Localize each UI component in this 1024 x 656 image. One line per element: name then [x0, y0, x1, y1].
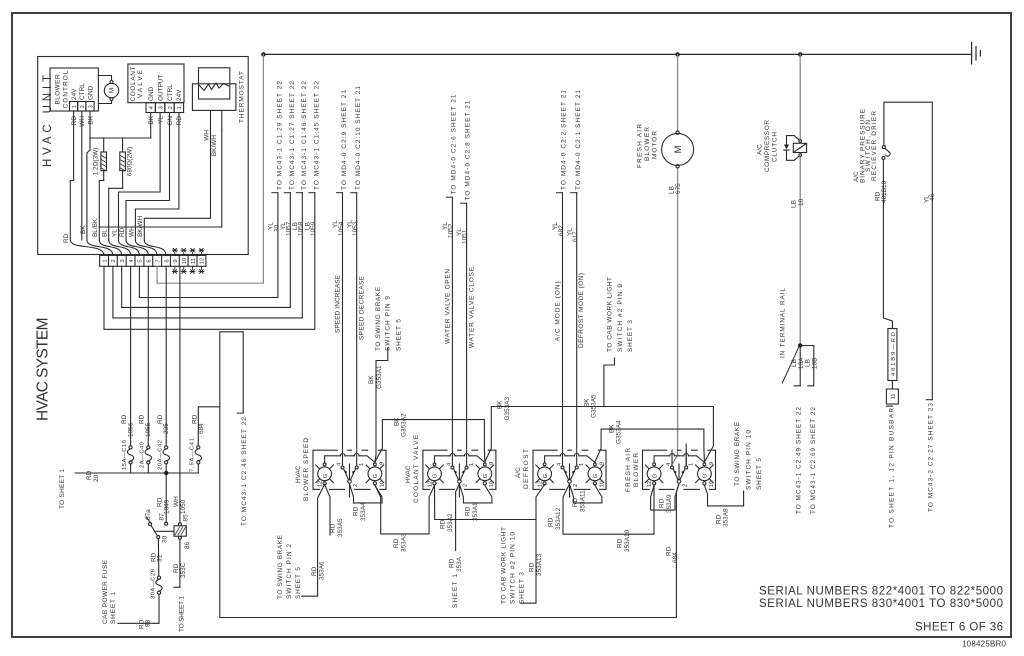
svg-text:SHEET 5: SHEET 5 — [756, 458, 763, 490]
svg-text:TO MC43-1 C2:46 SHEET 22: TO MC43-1 C2:46 SHEET 22 — [241, 417, 248, 526]
svg-text:11: 11 — [891, 393, 897, 399]
svg-text:WH: WH — [173, 496, 180, 507]
svg-text:CTRL: CTRL — [79, 83, 86, 100]
svg-text:GN: GN — [167, 116, 174, 126]
wire RD353A3 bus S1pin10 - S2pin12 — [375, 485, 435, 534]
svg-text:TO MD4-0 C2:6 SHEET 21: TO MD4-0 C2:6 SHEET 21 — [450, 94, 457, 194]
wire RD353A SHEET1 from S2 pin2 — [456, 484, 460, 551]
wire WH pin2 — [81, 111, 83, 240]
svg-text:617: 617 — [572, 231, 579, 242]
svg-text:RD: RD — [329, 523, 336, 533]
svg-text:2: 2 — [111, 259, 117, 262]
svg-text:353C: 353C — [180, 562, 187, 578]
wire RD353A13 to cab work light pin10 — [521, 484, 545, 603]
wire RD98 cab power fuse — [118, 594, 159, 623]
svg-text:86: 86 — [184, 541, 191, 549]
svg-text:RD: RD — [448, 558, 455, 568]
svg-text:MOTOR: MOTOR — [652, 131, 659, 159]
U-loop RD353A11 S3 pin2-pin10 — [570, 484, 602, 503]
wire BL/BK from r1 — [99, 181, 103, 241]
wire BL from r2 — [109, 188, 123, 240]
svg-text:TO MC43-1 C1:46 SHEET 22: TO MC43-1 C1:46 SHEET 22 — [301, 81, 308, 190]
svg-text:YL: YL — [157, 116, 164, 124]
wire t6 to fuse C40 — [147, 266, 149, 446]
svg-text:7.5A—C41: 7.5A—C41 — [190, 438, 196, 472]
svg-text:HVAC: HVAC — [405, 465, 412, 483]
svg-text:85: 85 — [183, 514, 190, 522]
svg-text:WH: WH — [128, 226, 135, 237]
svg-text:15A—C10: 15A—C10 — [122, 440, 128, 470]
svg-text:OUTPUT: OUTPUT — [157, 74, 164, 101]
svg-text:TO MC43-1 C1:45 SHEET 22: TO MC43-1 C1:45 SHEET 22 — [313, 81, 320, 190]
wire YL1053 to S1 pin1 — [356, 193, 358, 451]
node fuse bus — [164, 471, 168, 475]
svg-text:2A—C40: 2A—C40 — [140, 442, 146, 468]
svg-text:TO MC43-1 C2:49 SHEET 22: TO MC43-1 C2:49 SHEET 22 — [795, 407, 802, 514]
wire GN coolant pin2 — [126, 113, 170, 241]
svg-text:353A6: 353A6 — [319, 561, 326, 580]
svg-text:RD: RD — [658, 498, 665, 508]
label TO SWING BRAKE SWITCH PIN 2 SHEET 5 — [277, 534, 302, 599]
svg-text:1051: 1051 — [462, 229, 469, 244]
wire S1 pin2 shaft — [349, 484, 351, 497]
svg-text:353A9: 353A9 — [666, 494, 673, 513]
svg-text:LB: LB — [791, 200, 798, 208]
svg-text:RD: RD — [311, 566, 318, 576]
svg-text:M: M — [673, 145, 684, 153]
svg-text:1055: 1055 — [145, 422, 152, 437]
switch S2 HVAC COOLANT VALVE — [423, 450, 496, 489]
svg-text:CONTROL: CONTROL — [63, 70, 70, 108]
svg-text:BK: BK — [80, 225, 87, 234]
svg-text:TO SHEET 1: TO SHEET 1 — [59, 469, 66, 509]
svg-text:353A10: 353A10 — [624, 529, 631, 552]
wire RD1049 — [165, 473, 167, 522]
label TO SWING BRAKE SWITCH PIN 10 SHEET 5 — [734, 421, 763, 490]
svg-text:LB: LB — [805, 359, 812, 367]
svg-text:31: 31 — [157, 554, 164, 562]
svg-text:87a: 87a — [145, 509, 152, 520]
svg-text:A/C MODE (ON): A/C MODE (ON) — [555, 281, 562, 341]
svg-text:RD: RD — [548, 517, 555, 527]
svg-text:353A8: 353A8 — [723, 508, 730, 527]
svg-text:46: 46 — [929, 193, 936, 201]
wire BK G353A2 bus — [375, 420, 485, 462]
wire RD353A6 to swing brake pin2 — [302, 484, 325, 596]
svg-text:SERIAL NUMBERS 822*4001 TO 822: SERIAL NUMBERS 822*4001 TO 822*5000 — [759, 586, 1003, 598]
wire LB10A — [794, 346, 800, 386]
svg-text:1053: 1053 — [352, 221, 359, 236]
svg-text:353A4: 353A4 — [360, 502, 367, 521]
svg-text:BK: BK — [497, 400, 504, 409]
wire t2 stair to LB1058 — [113, 193, 302, 318]
svg-text:CTRL: CTRL — [167, 84, 174, 101]
ground — [972, 43, 981, 65]
svg-text:20A—C42: 20A—C42 — [158, 440, 164, 470]
svg-text:RD: RD — [121, 414, 128, 424]
svg-text:BK: BK — [368, 375, 375, 384]
svg-text:RECIEVER DRIER: RECIEVER DRIER — [871, 111, 878, 181]
svg-text:G353A1: G353A1 — [376, 365, 383, 389]
svg-text:BK: BK — [584, 398, 591, 407]
svg-text:SWITCH #2 PIN 10: SWITCH #2 PIN 10 — [510, 532, 517, 604]
wire t1 stair to LB1059 — [104, 193, 315, 330]
wire RD353A8 from S4 pin10 — [704, 485, 743, 506]
svg-text:235: 235 — [163, 423, 170, 434]
svg-text:CAB POWER FUSE: CAB POWER FUSE — [102, 559, 109, 624]
svg-text:BK/WH: BK/WH — [211, 135, 218, 156]
wire YL coolant pin3 — [119, 113, 161, 241]
svg-text:RD: RD — [528, 562, 535, 572]
fuse F3 20A-C42 — [163, 446, 169, 464]
A/C compressor clutch K2 — [799, 54, 801, 344]
fuse F6 481B9-RD busbar — [886, 329, 898, 407]
svg-text:BLOWER: BLOWER — [633, 453, 640, 487]
wire RD coolant pin1 — [135, 113, 179, 241]
wire WH1050 — [179, 267, 181, 523]
svg-text:RD: RD — [715, 514, 722, 524]
svg-text:680Ω(2W): 680Ω(2W) — [127, 147, 134, 177]
node terminal rail junction — [798, 343, 802, 347]
fresh air blower motor M2 — [672, 54, 678, 464]
svg-text:RD: RD — [157, 414, 164, 424]
wire BK/WH thermostat — [99, 130, 222, 227]
svg-text:1054: 1054 — [338, 221, 345, 236]
top label group: TO MC43-1 x4 — [276, 81, 320, 190]
wire t4 to fuse C10 — [130, 266, 132, 446]
top rail — [263, 53, 971, 55]
relay K1 — [149, 522, 187, 539]
svg-text:HVAC SYSTEM: HVAC SYSTEM — [35, 316, 52, 421]
wire LB10B — [800, 346, 814, 386]
coolant valve V1 — [128, 64, 184, 113]
switch S4 FRESH AIR BLOWER — [643, 450, 716, 489]
label CAB POWER FUSE SHEET 1 — [102, 559, 117, 624]
wire YL617 to S3 pin1 — [576, 193, 578, 451]
svg-text:BK: BK — [148, 115, 155, 124]
wire labels YL30 YL1057 LB1058 LB1059 — [268, 221, 318, 236]
svg-text:TO MC43-2 C2:27 SHEET 23: TO MC43-2 C2:27 SHEET 23 — [927, 403, 934, 512]
svg-text:DEFROST: DEFROST — [523, 449, 530, 489]
wire RD353C to sheet 1 — [174, 539, 180, 587]
svg-text:DEFROST MODE (ON): DEFROST MODE (ON) — [578, 273, 585, 348]
svg-text:BK/WH: BK/WH — [137, 216, 144, 237]
svg-text:RD: RD — [616, 538, 623, 548]
svg-text:FRESH AIR: FRESH AIR — [625, 448, 632, 492]
svg-text:1056: 1056 — [127, 422, 134, 437]
U-loop RD353A1 S2 pin2-pin10 — [459, 484, 492, 503]
svg-text:684: 684 — [672, 552, 679, 563]
svg-text:RD: RD — [139, 414, 146, 424]
svg-text:BK: BK — [87, 115, 94, 124]
svg-text:10: 10 — [798, 198, 805, 206]
svg-text:BK: BK — [609, 424, 616, 433]
wire t8 to fuse C42 — [165, 266, 167, 446]
svg-text:353A1: 353A1 — [472, 502, 479, 521]
svg-text:11: 11 — [191, 258, 197, 264]
svg-text:RD: RD — [440, 519, 447, 529]
wire RD353A10 bus S3pin2 - S4pin12 — [563, 484, 654, 534]
svg-text:TO MC43-1 C1:27 SHEET 22: TO MC43-1 C1:27 SHEET 22 — [289, 81, 296, 190]
wire RD31 — [157, 539, 159, 577]
node clutch tap — [798, 52, 802, 56]
svg-text:CLUTCH: CLUTCH — [771, 132, 778, 162]
svg-text:GND: GND — [87, 85, 94, 100]
wire YL1054 to S1 pin4 — [342, 193, 344, 451]
wire RD684 to fuse C41 — [198, 407, 220, 446]
svg-text:G353A3: G353A3 — [504, 396, 511, 420]
svg-text:6: 6 — [147, 259, 153, 262]
svg-text:WH: WH — [204, 130, 211, 141]
svg-text:WATER VALVE OPEN: WATER VALVE OPEN — [444, 269, 451, 344]
resistor R1 1.2ohm — [101, 138, 107, 181]
svg-text:BLOWER SPEED: BLOWER SPEED — [303, 438, 310, 501]
svg-text:1059: 1059 — [310, 221, 317, 236]
svg-text:RD: RD — [572, 497, 579, 507]
svg-text:G353A4: G353A4 — [616, 420, 623, 444]
svg-text:LB: LB — [791, 359, 798, 367]
wire RD353A2 bus S2pin12 - RD353A13 — [435, 485, 537, 519]
label TO MC43-1 C2:46 SHEET 22 — [237, 412, 243, 414]
svg-text:RD: RD — [191, 414, 198, 424]
svg-text:8: 8 — [164, 259, 170, 262]
label 87a pointer — [146, 517, 151, 523]
svg-text:SWITCH #2 PIN 9: SWITCH #2 PIN 9 — [617, 284, 624, 352]
svg-text:SPEED INCREASE: SPEED INCREASE — [334, 274, 341, 333]
svg-text:3: 3 — [88, 105, 94, 108]
svg-text:RD: RD — [173, 563, 180, 573]
svg-text:30: 30 — [162, 535, 169, 543]
svg-text:RD: RD — [464, 506, 471, 516]
U-loop RD353A9 S4 pin12-pin2 — [651, 484, 679, 510]
wire BK G353A5 cab work light pin9 — [604, 358, 615, 407]
fuse F5 30A-C26 — [156, 576, 162, 594]
svg-text:BLOWER: BLOWER — [644, 127, 651, 161]
connector S-curves into terminal strip — [70, 240, 166, 255]
svg-text:684: 684 — [198, 423, 205, 434]
svg-text:HVAC: HVAC — [295, 465, 302, 483]
svg-text:TO MD4-0 C2:10 SHEET 21: TO MD4-0 C2:10 SHEET 21 — [355, 86, 362, 190]
svg-text:481B10: 481B10 — [881, 180, 888, 203]
svg-text:WH: WH — [79, 116, 86, 127]
svg-text:7: 7 — [155, 259, 161, 262]
svg-text:RD: RD — [63, 233, 70, 243]
svg-text:20: 20 — [93, 474, 100, 482]
wire BK bundle — [87, 138, 90, 240]
svg-text:IN TERMINAL RAIL: IN TERMINAL RAIL — [779, 288, 786, 358]
svg-text:12: 12 — [200, 258, 206, 264]
svg-text:SHEET 3: SHEET 3 — [519, 572, 526, 604]
svg-text:24V: 24V — [71, 88, 78, 100]
svg-text:RD: RD — [86, 470, 93, 480]
svg-text:THERMOSTAT: THERMOSTAT — [239, 71, 246, 123]
svg-text:SWITCH PIN 10: SWITCH PIN 10 — [746, 430, 753, 490]
svg-text:2: 2 — [80, 105, 86, 108]
wire S4 pin1 stub — [685, 444, 687, 466]
node rail start — [261, 52, 265, 56]
svg-text:108425BR0: 108425BR0 — [962, 640, 1007, 649]
svg-text:SHEET 5: SHEET 5 — [295, 567, 302, 599]
svg-text:G353A5: G353A5 — [591, 394, 598, 418]
svg-text:RD: RD — [393, 538, 400, 548]
svg-text:353A3: 353A3 — [401, 533, 408, 552]
svg-text:1: 1 — [72, 105, 78, 108]
fuse bus — [75, 472, 198, 474]
wire BK G353A1 swing brake pin9 — [375, 348, 388, 462]
label TO CAB WORK LIGHT SWITCH #2 PIN 10 SHEET 3 — [501, 527, 526, 604]
svg-text:SHEET 1: SHEET 1 — [110, 592, 117, 624]
svg-text:SHEET 6 OF 36: SHEET 6 OF 36 — [915, 622, 1003, 634]
wire t3 stair to YL1057 — [122, 193, 291, 308]
svg-text:1049: 1049 — [163, 499, 170, 514]
svg-text:A/C: A/C — [756, 144, 763, 155]
svg-text:SHEET 5: SHEET 5 — [396, 319, 403, 351]
svg-text:WATER VALVE CLOSE: WATER VALVE CLOSE — [469, 266, 476, 348]
svg-text:1052: 1052 — [447, 223, 454, 238]
svg-text:COOLANT: COOLANT — [130, 66, 137, 101]
svg-text:1: 1 — [177, 106, 183, 109]
svg-text:24V: 24V — [176, 89, 183, 101]
svg-text:353A12: 353A12 — [555, 507, 562, 530]
svg-text:TO MD4-0 C2:9 SHEET 21: TO MD4-0 C2:9 SHEET 21 — [341, 90, 348, 190]
svg-text:SPEED DECREASE: SPEED DECREASE — [359, 275, 366, 340]
wire WH thermostat — [144, 115, 210, 240]
resistor R2 680ohm — [120, 138, 126, 188]
A/C binary pressure switch S5 — [882, 102, 932, 400]
fuse F2 2A-C40 — [145, 446, 151, 464]
svg-text:10B: 10B — [812, 358, 819, 369]
svg-text:98: 98 — [145, 619, 152, 627]
wire RD pin1 — [70, 111, 73, 240]
svg-text:353A13: 353A13 — [536, 553, 543, 576]
node motor tap — [675, 52, 679, 56]
svg-text:5: 5 — [138, 259, 144, 262]
HVAC UNIT box — [38, 57, 249, 255]
fuse F4 7.5A-C41 — [195, 446, 201, 464]
blower motor M1 — [98, 76, 118, 104]
wire t5 stair to YL30 — [139, 193, 278, 298]
wire YL1052 to S2 pin4 — [451, 197, 453, 450]
switch S3 A/C DEFROST — [533, 450, 606, 489]
svg-text:GND: GND — [148, 86, 155, 101]
svg-text:RD: RD — [119, 227, 126, 237]
svg-text:BK: BK — [394, 417, 401, 426]
svg-text:TO MD4-0 C2:8 SHEET 21: TO MD4-0 C2:8 SHEET 21 — [465, 100, 472, 200]
svg-text:TO SWING BRAKE: TO SWING BRAKE — [375, 286, 382, 351]
wire RD684 bottom bus to S4 pin2 — [220, 332, 679, 618]
svg-text:SWITCH PIN 9: SWITCH PIN 9 — [385, 296, 392, 351]
svg-text:TO CAB WORK LIGHT: TO CAB WORK LIGHT — [501, 527, 508, 604]
svg-text:TO MD4-0 C2:1 SHEET 21: TO MD4-0 C2:1 SHEET 21 — [575, 90, 582, 190]
svg-text:TO MD4-0 C2:2 SHEET 21: TO MD4-0 C2:2 SHEET 21 — [561, 90, 568, 190]
svg-text:TO SWING BRAKE: TO SWING BRAKE — [734, 421, 741, 486]
svg-text:353A11: 353A11 — [580, 490, 587, 512]
svg-text:RD: RD — [176, 116, 183, 126]
svg-text:682: 682 — [558, 225, 565, 236]
svg-text:353A2: 353A2 — [447, 513, 454, 532]
svg-text:481B9—RD: 481B9—RD — [891, 332, 897, 376]
svg-text:1050: 1050 — [180, 499, 187, 514]
svg-text:A/C: A/C — [515, 467, 522, 478]
svg-text:COOLANT VALVE: COOLANT VALVE — [413, 434, 420, 503]
svg-text:675: 675 — [675, 183, 682, 194]
wire RD353A5 — [325, 484, 330, 535]
svg-text:353A: 353A — [456, 556, 463, 572]
svg-text:FRESH AIR: FRESH AIR — [637, 124, 644, 168]
svg-text:RD: RD — [71, 116, 78, 126]
wire YL1051 to S2 pin1 — [466, 203, 468, 450]
svg-text:TO SHEET 1: TO SHEET 1 — [178, 596, 185, 632]
svg-text:1: 1 — [102, 259, 108, 262]
switch S1 HVAC BLOWER SPEED — [313, 450, 386, 489]
svg-text:SWITCH PIN 2: SWITCH PIN 2 — [286, 544, 293, 599]
wire BK G353A4 bus — [595, 429, 705, 462]
svg-text:TO SWING BRAKE: TO SWING BRAKE — [277, 534, 284, 599]
svg-text:COMPRESSOR: COMPRESSOR — [764, 120, 771, 172]
svg-text:BL: BL — [102, 229, 109, 237]
svg-text:30A—C26: 30A—C26 — [150, 569, 156, 599]
svg-text:RD: RD — [352, 506, 359, 516]
star terminals 9-12 — [175, 252, 202, 269]
thermostat TH1 — [192, 68, 236, 130]
svg-text:SERIAL NUMBERS 830*4001 TO 830: SERIAL NUMBERS 830*4001 TO 830*5000 — [759, 598, 1003, 610]
svg-text:G353A2: G353A2 — [401, 413, 408, 437]
wire coolant pin4 BK — [150, 113, 152, 139]
wire t7 to rail (stair 1) — [157, 54, 263, 283]
svg-text:9: 9 — [173, 259, 179, 262]
svg-text:3: 3 — [120, 259, 126, 262]
terminal strip TB1 1-12 — [100, 255, 206, 266]
svg-text:M: M — [109, 88, 116, 93]
svg-text:2: 2 — [168, 106, 174, 109]
wire BK G353A3 bus — [485, 407, 714, 463]
svg-text:TO CAB WORK LIGHT: TO CAB WORK LIGHT — [607, 277, 614, 352]
svg-text:87: 87 — [158, 513, 165, 521]
svg-text:TO MC43-1 C2:69 SHEET 22: TO MC43-1 C2:69 SHEET 22 — [810, 407, 817, 514]
svg-text:10: 10 — [182, 258, 188, 264]
wire BK pin3 to resistor bus — [89, 111, 91, 138]
U-loop RD353A4 S1 pin2-pin10 — [350, 484, 383, 503]
svg-text:HVAC UNIT: HVAC UNIT — [42, 73, 54, 167]
blower control U1 — [50, 68, 98, 111]
resistor bus — [90, 137, 151, 139]
svg-text:YL: YL — [111, 229, 118, 237]
fuse F1 15A-C10 — [127, 446, 133, 464]
wire YL682 to S3 pin4 — [562, 193, 564, 451]
svg-text:353A5: 353A5 — [337, 518, 344, 537]
svg-text:1.2Ω(3W): 1.2Ω(3W) — [93, 148, 100, 176]
svg-text:3: 3 — [158, 106, 164, 109]
svg-text:SHEET 3: SHEET 3 — [627, 320, 634, 352]
internal unit wires — [70, 111, 222, 240]
svg-text:BL/BK: BL/BK — [92, 218, 99, 237]
svg-text:TO MC43-1 C1:29 SHEET 22: TO MC43-1 C1:29 SHEET 22 — [276, 81, 283, 190]
svg-text:BLOWER: BLOWER — [55, 74, 62, 104]
